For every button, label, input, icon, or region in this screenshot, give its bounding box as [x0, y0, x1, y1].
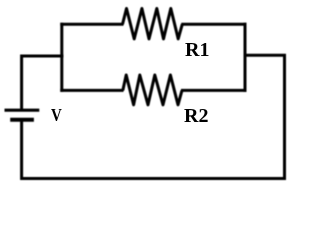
battery V short plate (negative): [10, 118, 34, 122]
wire left junction vertical: [60, 23, 63, 92]
resistor R1: [123, 9, 183, 39]
battery V long plate (positive): [5, 109, 40, 112]
svg-text:R1: R1: [185, 39, 209, 61]
wire R2 rail right segment: [181, 89, 247, 92]
svg-text:R2: R2: [184, 105, 208, 127]
wire top rail right segment: [181, 23, 246, 26]
wire top rail left segment: [60, 23, 123, 26]
wire left connector and upper left vertical to battery: [22, 56, 64, 111]
wire R2 rail left segment: [60, 89, 123, 92]
svg-text:V: V: [51, 105, 62, 125]
wire outer loop: battery negative down, bottom rail, right vertical, right connector: [22, 55, 285, 178]
resistor R2: [123, 75, 182, 105]
wire right junction vertical: [244, 23, 247, 92]
